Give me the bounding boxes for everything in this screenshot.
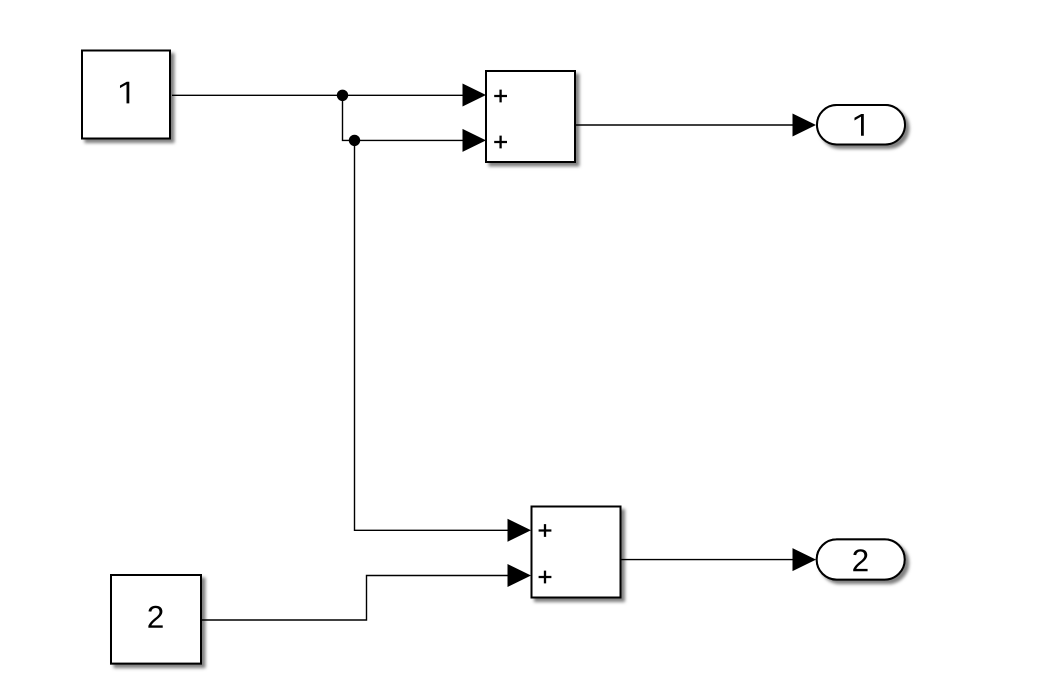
sum block Sum1 — [486, 71, 575, 162]
arrowhead Sum2 input 1 — [508, 519, 532, 542]
arrowhead Sum1 input 1 — [463, 84, 487, 107]
plus sign Sum1 input 1 — [494, 90, 507, 103]
inport block In1 — [82, 51, 170, 139]
arrowhead Sum2 input 2 — [508, 564, 532, 587]
sum block Sum2 — [532, 507, 621, 598]
wire Sum2 output to Out2 — [621, 559, 793, 561]
wire node B down to Sum2 input 1 — [355, 140, 509, 530]
arrowhead Sum1 input 2 — [463, 129, 487, 152]
outport block Out2 — [817, 539, 905, 579]
arrowhead Out2 input — [793, 548, 817, 571]
wire node A to Sum1 input 1 — [343, 94, 465, 96]
plus sign Sum2 input 2 — [539, 571, 552, 584]
wire In2 output to Sum2 input 2 — [202, 576, 508, 621]
wire Sum1 output to Out1 — [576, 124, 793, 126]
wire In1 output to node A — [172, 94, 343, 96]
wire node B to Sum1 input 2 — [355, 139, 465, 141]
inport block In2 — [111, 575, 201, 664]
wire node A down to node B — [343, 95, 355, 140]
junction node A — [337, 90, 348, 101]
outport block Out1 — [817, 105, 905, 145]
junction node B — [349, 135, 360, 146]
arrowhead Out1 input — [793, 114, 817, 137]
plus sign Sum2 input 1 — [539, 524, 552, 537]
plus sign Sum1 input 2 — [494, 136, 507, 149]
